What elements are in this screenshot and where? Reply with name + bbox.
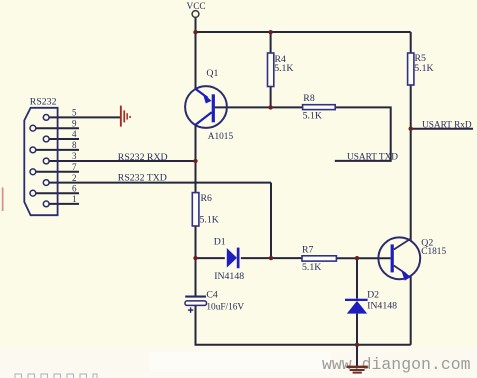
svg-text:R8: R8: [303, 93, 315, 104]
svg-text:5: 5: [72, 108, 77, 118]
svg-text:6: 6: [72, 183, 77, 193]
svg-text:USART TXD: USART TXD: [347, 153, 398, 163]
svg-text:1: 1: [72, 194, 77, 204]
svg-text:www.diangon.com: www.diangon.com: [322, 355, 471, 374]
svg-text:RS232: RS232: [30, 97, 57, 108]
svg-text:7: 7: [72, 162, 77, 172]
svg-text:5.1K: 5.1K: [274, 63, 293, 74]
svg-text:A1015: A1015: [208, 132, 234, 142]
svg-text:IN4148: IN4148: [367, 300, 397, 311]
svg-text:VCC: VCC: [187, 2, 206, 12]
svg-text:2: 2: [72, 173, 77, 183]
svg-text:USART RxD: USART RxD: [422, 121, 472, 131]
svg-text:D1: D1: [214, 237, 226, 248]
svg-text:R6: R6: [201, 193, 213, 204]
svg-text:8: 8: [72, 140, 77, 150]
svg-text:IN4148: IN4148: [214, 271, 244, 282]
svg-text:Q1: Q1: [206, 68, 218, 79]
svg-text:9: 9: [72, 118, 77, 128]
svg-text:C1815: C1815: [421, 247, 446, 257]
svg-text:10uF/16V: 10uF/16V: [206, 302, 244, 312]
svg-text:R7: R7: [302, 244, 314, 255]
svg-text:RS232 RXD: RS232 RXD: [118, 152, 168, 163]
svg-text:RS232 TXD: RS232 TXD: [118, 173, 167, 184]
svg-text:5.1K: 5.1K: [200, 215, 219, 226]
svg-text:5.1K: 5.1K: [414, 63, 433, 74]
svg-text:C4: C4: [206, 289, 218, 300]
svg-text:4: 4: [72, 129, 77, 139]
svg-text:D2: D2: [367, 290, 379, 301]
svg-text:5.1K: 5.1K: [302, 262, 321, 273]
svg-text:5.1K: 5.1K: [303, 111, 322, 122]
svg-text:3: 3: [72, 151, 77, 161]
